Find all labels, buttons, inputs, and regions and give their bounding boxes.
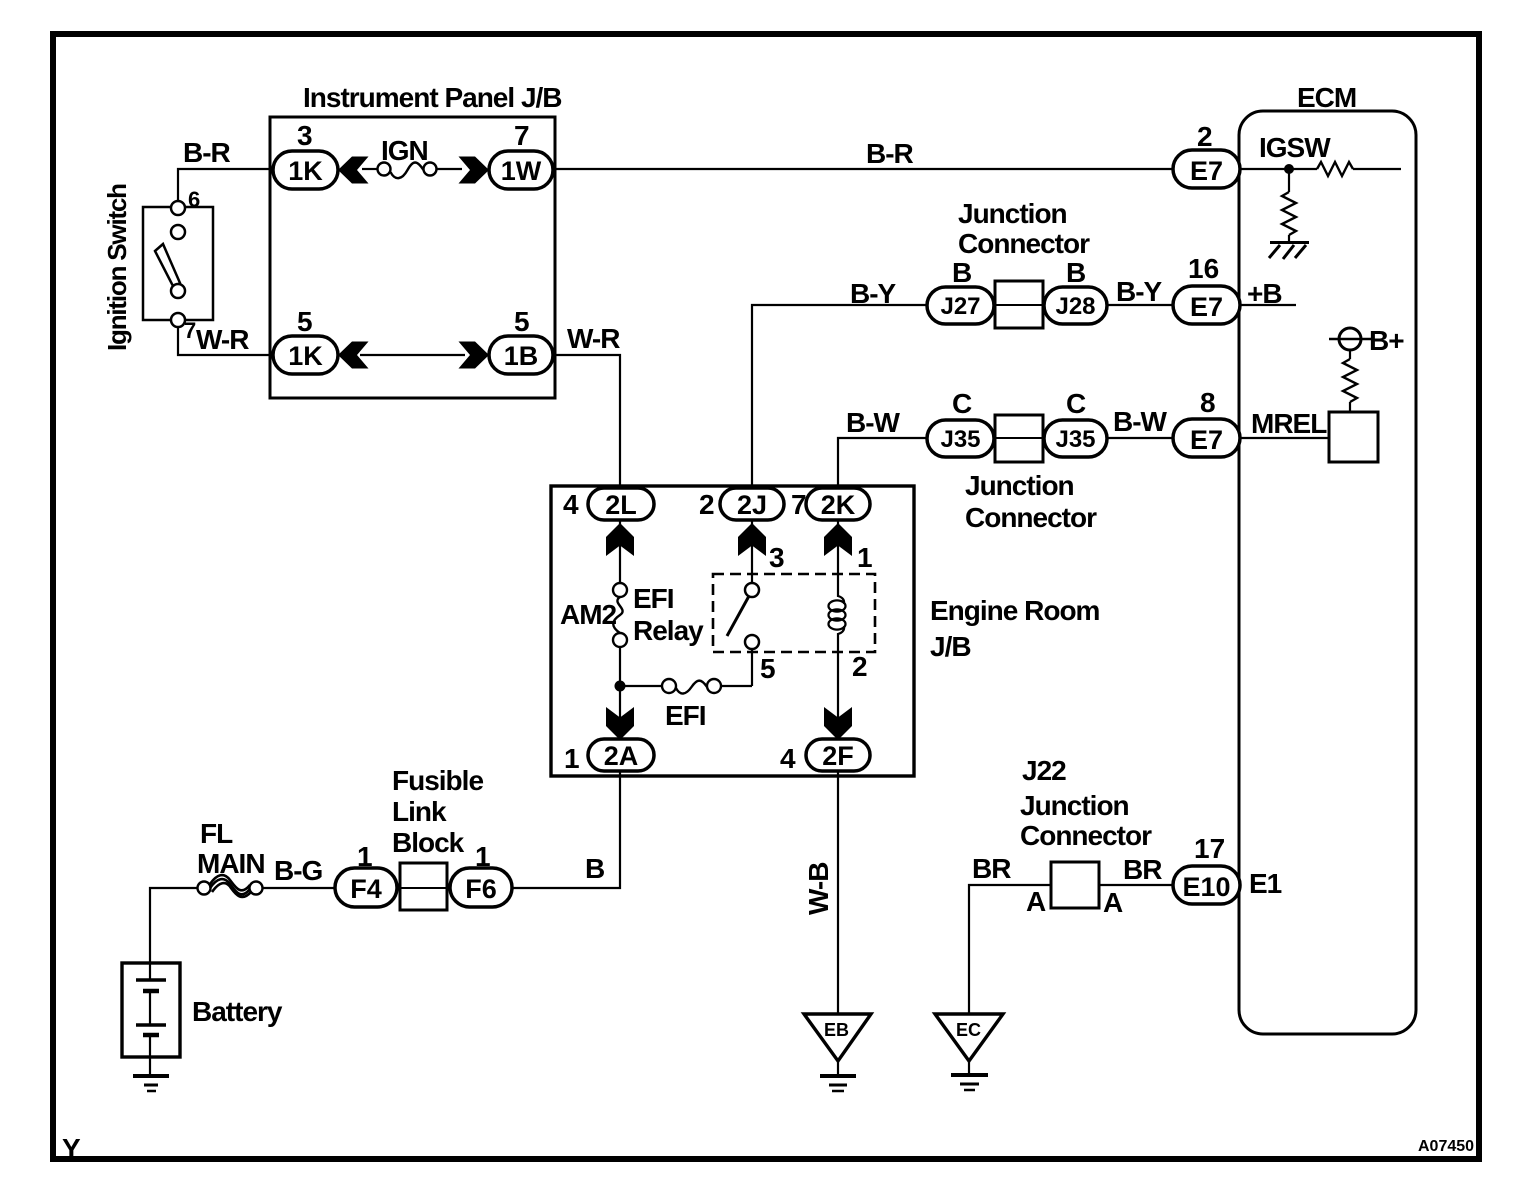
svg-text:Junction: Junction	[958, 198, 1067, 229]
fuse IGN	[378, 163, 391, 176]
svg-text:A: A	[1103, 887, 1123, 918]
chassis ground IGSW	[1270, 241, 1309, 244]
ground EB triangle	[804, 1014, 871, 1061]
ground EC triangle	[935, 1014, 1003, 1061]
connector F4 pin1	[335, 868, 397, 907]
ground battery	[133, 1074, 169, 1078]
svg-text:B-W: B-W	[846, 407, 901, 438]
svg-text:IGN: IGN	[381, 135, 428, 166]
svg-text:IGSW: IGSW	[1259, 132, 1331, 163]
svg-text:5: 5	[760, 653, 776, 684]
resistor IGSW horizontal	[1317, 162, 1353, 176]
wire B-W 2K up to J35	[838, 438, 927, 488]
ignition switch blade	[155, 244, 180, 288]
svg-text:C: C	[952, 388, 972, 419]
svg-text:7: 7	[514, 120, 530, 151]
wire node to resistor	[1289, 168, 1317, 170]
ignition switch contact upper	[171, 225, 185, 239]
wire arrow to IGN fuse	[362, 168, 378, 170]
svg-text:Block: Block	[392, 827, 465, 858]
svg-text:3: 3	[769, 542, 785, 573]
svg-text:1W: 1W	[501, 156, 542, 186]
connector 2F pin4	[806, 739, 870, 771]
svg-text:BR: BR	[972, 853, 1011, 884]
fuse EFI	[662, 679, 676, 693]
svg-text:Engine Room: Engine Room	[930, 595, 1100, 626]
svg-text:MREL: MREL	[1251, 408, 1327, 439]
svg-text:2: 2	[699, 489, 715, 520]
connector E7 pin16	[1173, 286, 1240, 324]
svg-text:17: 17	[1194, 833, 1225, 864]
svg-text:Link: Link	[392, 796, 447, 827]
wire E7 to IGSW node	[1240, 168, 1289, 170]
wire B-R ignition switch to 1K	[178, 169, 273, 201]
wire AM2 column	[619, 520, 621, 739]
svg-text:E10: E10	[1182, 872, 1230, 902]
svg-text:Ignition Switch: Ignition Switch	[102, 184, 132, 351]
wire resistor to right	[1353, 168, 1401, 170]
arrow up 2J	[738, 523, 766, 556]
svg-text:F4: F4	[350, 874, 382, 904]
connector 2J pin2	[720, 488, 784, 520]
wire 2F down to ground EB	[837, 771, 839, 1014]
wire J28 to E7 16	[1107, 304, 1173, 306]
fusible link block	[400, 863, 447, 910]
resistor MREL coil	[1343, 359, 1357, 402]
resistor IGSW pulldown	[1282, 192, 1296, 235]
svg-text:B-R: B-R	[866, 138, 914, 169]
svg-text:B: B	[1066, 257, 1086, 288]
B+ terminal	[1339, 328, 1361, 350]
svg-text:3: 3	[297, 120, 313, 151]
arrow down 2F	[824, 707, 852, 740]
svg-text:2: 2	[852, 651, 868, 682]
wire battery to FL MAIN	[150, 888, 198, 963]
wire IGN fuse to arrow	[436, 168, 462, 170]
wire resistor to MREL box	[1349, 402, 1351, 412]
connector 1K pin5	[273, 336, 338, 374]
arrow left bottom	[338, 342, 369, 369]
connector E7 pin2	[1173, 150, 1240, 188]
svg-text:1: 1	[357, 841, 373, 872]
svg-text:B-Y: B-Y	[1116, 276, 1163, 307]
svg-text:4: 4	[780, 743, 796, 774]
svg-text:W-B: W-B	[803, 863, 834, 915]
junction connector J22 box	[1051, 862, 1099, 908]
wire resistor to ground	[1288, 235, 1290, 243]
node EFI junction	[615, 681, 626, 692]
connector 2A pin1	[588, 739, 654, 771]
svg-text:7: 7	[791, 489, 807, 520]
wire EC up to J22	[969, 885, 1051, 1014]
svg-text:BR: BR	[1123, 854, 1162, 885]
svg-text:Junction: Junction	[965, 470, 1074, 501]
svg-text:+B: +B	[1247, 278, 1282, 309]
svg-text:2J: 2J	[737, 490, 767, 520]
svg-text:Relay: Relay	[633, 615, 704, 646]
svg-text:Battery: Battery	[192, 996, 283, 1027]
engine room J/B box	[551, 486, 914, 776]
svg-text:J27: J27	[940, 293, 980, 320]
svg-text:A07450: A07450	[1418, 1138, 1474, 1155]
svg-text:1K: 1K	[288, 341, 323, 371]
arrow up 2L	[606, 523, 634, 556]
wire contact5 down	[751, 649, 753, 686]
svg-text:6: 6	[188, 187, 200, 212]
wire EFI fuse row	[620, 685, 752, 687]
svg-text:FL: FL	[200, 818, 233, 849]
arrow up 2K	[824, 523, 852, 556]
connector 2K pin7	[806, 488, 870, 520]
connector 2L pin4	[588, 488, 654, 520]
svg-text:E1: E1	[1249, 868, 1282, 899]
svg-text:E7: E7	[1190, 425, 1223, 455]
svg-text:5: 5	[297, 306, 313, 337]
svg-text:W-R: W-R	[567, 323, 620, 354]
relay switch contact 3	[745, 583, 759, 597]
svg-text:Junction: Junction	[1020, 790, 1129, 821]
connector 1K pin3	[273, 151, 338, 189]
svg-text:Connector: Connector	[1020, 820, 1152, 851]
svg-text:8: 8	[1200, 387, 1216, 418]
svg-text:A: A	[1026, 886, 1046, 917]
svg-text:B: B	[952, 257, 972, 288]
wire FL MAIN to F4	[262, 887, 335, 889]
wire W-R switch pin7 to 1K	[178, 327, 273, 355]
connector 1B pin5	[489, 336, 553, 374]
relay switch blade	[727, 596, 749, 636]
ignition switch contact lower	[171, 284, 185, 298]
wire 2A down to fusible link row	[512, 771, 620, 888]
arrow down 2A	[606, 707, 634, 740]
svg-text:C: C	[1066, 388, 1086, 419]
svg-text:1K: 1K	[288, 156, 323, 186]
svg-text:Instrument Panel J/B: Instrument Panel J/B	[303, 82, 562, 113]
junction connector C: J35 right	[1044, 420, 1107, 457]
svg-text:1: 1	[475, 841, 491, 872]
svg-text:B+: B+	[1369, 325, 1404, 356]
instrument panel J/B box	[270, 117, 555, 398]
svg-text:5: 5	[514, 306, 530, 337]
svg-text:1: 1	[564, 743, 580, 774]
ignition switch contact 7	[171, 313, 185, 327]
wire J22 to E10	[1099, 884, 1173, 886]
wire B+ down	[1349, 350, 1351, 359]
connector E10 pin17	[1173, 866, 1240, 904]
svg-text:E7: E7	[1190, 156, 1223, 186]
svg-text:4: 4	[563, 489, 579, 520]
connector E7 pin8	[1173, 419, 1240, 457]
svg-text:B-W: B-W	[1113, 406, 1168, 437]
junction connector B: J27	[927, 287, 994, 324]
svg-text:EC: EC	[956, 1020, 981, 1040]
svg-text:E7: E7	[1190, 292, 1223, 322]
junction connector B: J28	[1044, 287, 1107, 324]
ignition switch box	[143, 207, 213, 320]
ignition switch contact 6	[171, 201, 185, 215]
wire node down	[1288, 169, 1290, 192]
connector 1W pin7	[489, 151, 553, 189]
svg-text:2F: 2F	[822, 741, 854, 771]
wire B-R 1W to ECM E7	[553, 168, 1173, 170]
svg-text:Fusible: Fusible	[392, 765, 483, 796]
relay switch contact 5	[745, 635, 759, 649]
arrow right bottom	[459, 342, 490, 369]
svg-text:Connector: Connector	[958, 228, 1090, 259]
svg-text:J35: J35	[940, 426, 980, 453]
wire B-Y 2J up to J27	[752, 305, 927, 488]
wire J35 to E7 8	[1107, 437, 1173, 439]
wire MREL E7 to relay box	[1240, 437, 1329, 439]
connector F6 pin1	[450, 868, 512, 907]
svg-text:2: 2	[1197, 121, 1213, 152]
MREL relay box	[1329, 412, 1378, 462]
relay coil	[838, 520, 844, 739]
svg-text:Connector: Connector	[965, 502, 1097, 533]
svg-text:2K: 2K	[821, 490, 856, 520]
svg-text:EB: EB	[824, 1020, 849, 1040]
wire W-R 1B down to 2L	[553, 355, 620, 488]
svg-text:J35: J35	[1055, 426, 1095, 453]
svg-text:J/B: J/B	[930, 631, 971, 662]
svg-text:B-Y: B-Y	[850, 278, 897, 309]
svg-text:EFI: EFI	[633, 583, 674, 614]
battery	[122, 963, 180, 1057]
wire between lower arrows	[360, 354, 465, 356]
svg-text:ECM: ECM	[1297, 82, 1356, 113]
svg-text:16: 16	[1188, 253, 1219, 284]
svg-text:W-R: W-R	[196, 324, 249, 355]
node IGSW junction	[1284, 164, 1294, 174]
wire 2J column	[751, 520, 753, 583]
arrow left top	[338, 157, 369, 184]
junction connector block upper	[995, 281, 1043, 328]
svg-text:B-G: B-G	[274, 855, 323, 886]
svg-text:AM2: AM2	[560, 599, 617, 630]
svg-text:1: 1	[857, 542, 873, 573]
junction connector C: J35 left	[927, 420, 994, 457]
fuse AM2	[613, 583, 627, 597]
svg-text:J22: J22	[1022, 755, 1066, 786]
svg-text:2L: 2L	[605, 490, 637, 520]
svg-text:J28: J28	[1055, 293, 1095, 320]
svg-text:Y: Y	[62, 1133, 81, 1164]
EFI relay dashed box	[713, 574, 875, 652]
svg-text:7: 7	[184, 318, 196, 343]
arrow right top	[459, 157, 490, 184]
svg-text:1B: 1B	[504, 341, 539, 371]
svg-text:F6: F6	[465, 874, 497, 904]
svg-text:2A: 2A	[604, 741, 639, 771]
svg-text:MAIN: MAIN	[197, 848, 265, 879]
svg-text:B-R: B-R	[183, 137, 231, 168]
junction connector block lower	[995, 415, 1043, 462]
svg-text:B: B	[585, 853, 604, 884]
fusible link FL MAIN	[198, 882, 211, 895]
ECM box	[1239, 111, 1416, 1034]
svg-text:EFI: EFI	[665, 700, 706, 731]
wire +B stub	[1240, 304, 1296, 306]
